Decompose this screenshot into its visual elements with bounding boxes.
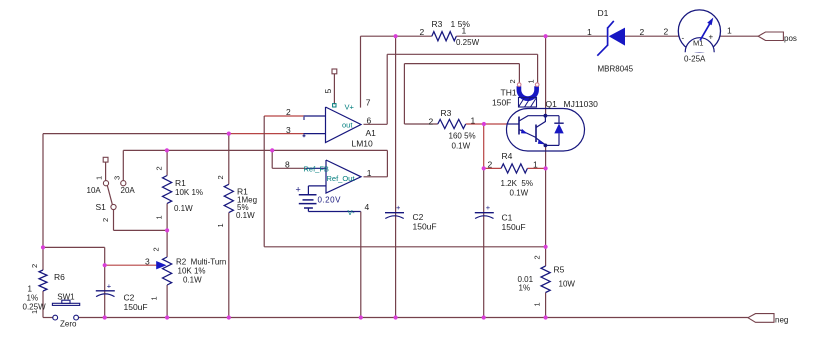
svg-text:3: 3 bbox=[286, 125, 291, 135]
svg-text:1: 1 bbox=[587, 27, 592, 37]
svg-text:1: 1 bbox=[30, 310, 39, 314]
svg-text:2: 2 bbox=[640, 27, 645, 37]
svg-text:R1: R1 bbox=[175, 178, 186, 188]
svg-text:1: 1 bbox=[533, 302, 542, 306]
svg-text:-: - bbox=[682, 34, 685, 43]
svg-text:R3: R3 bbox=[432, 19, 443, 29]
svg-text:10K 1%: 10K 1% bbox=[175, 188, 203, 197]
svg-text:LM10: LM10 bbox=[352, 139, 374, 149]
svg-text:0.25W: 0.25W bbox=[456, 38, 480, 47]
svg-text:1: 1 bbox=[216, 223, 225, 227]
svg-text:S1: S1 bbox=[96, 202, 107, 212]
svg-text:2: 2 bbox=[488, 160, 493, 170]
svg-text:Q1: Q1 bbox=[546, 99, 558, 109]
svg-text:+: + bbox=[296, 185, 301, 195]
svg-text:Ref_FB: Ref_FB bbox=[304, 165, 329, 174]
svg-text:C1: C1 bbox=[502, 213, 513, 223]
svg-text:6: 6 bbox=[367, 116, 372, 126]
svg-text:R5: R5 bbox=[554, 265, 565, 275]
svg-text:1%: 1% bbox=[519, 284, 531, 293]
svg-text:MJ11030: MJ11030 bbox=[564, 99, 599, 109]
svg-text:1: 1 bbox=[155, 215, 164, 219]
svg-text:2: 2 bbox=[286, 107, 291, 117]
svg-text:2: 2 bbox=[664, 27, 669, 37]
svg-text:Ref_Out: Ref_Out bbox=[327, 174, 356, 183]
svg-text:1: 1 bbox=[95, 176, 104, 180]
svg-text:out: out bbox=[342, 121, 353, 130]
svg-text:1: 1 bbox=[150, 296, 159, 300]
svg-text:R6: R6 bbox=[54, 272, 65, 282]
svg-text:1: 1 bbox=[533, 160, 538, 170]
svg-text:R2 Multi-Turn: R2 Multi-Turn bbox=[176, 258, 226, 267]
svg-text:1: 1 bbox=[367, 168, 372, 178]
svg-text:20A: 20A bbox=[121, 186, 136, 195]
svg-text:pos: pos bbox=[784, 34, 797, 43]
svg-text:0.1W: 0.1W bbox=[236, 211, 255, 220]
svg-text:1: 1 bbox=[462, 26, 467, 36]
svg-text:R4: R4 bbox=[502, 151, 513, 161]
svg-text:150F: 150F bbox=[492, 98, 511, 108]
svg-text:C2: C2 bbox=[413, 212, 424, 222]
svg-text:V-: V- bbox=[348, 208, 356, 217]
svg-text:150uF: 150uF bbox=[413, 222, 437, 232]
svg-text:1: 1 bbox=[527, 79, 536, 83]
svg-text:0.20V: 0.20V bbox=[318, 195, 342, 204]
svg-text:0-25A: 0-25A bbox=[684, 55, 706, 64]
svg-text:SW1: SW1 bbox=[57, 292, 75, 301]
svg-text:2: 2 bbox=[420, 27, 425, 37]
svg-text:+: + bbox=[107, 281, 112, 290]
svg-text:D1: D1 bbox=[598, 8, 609, 18]
svg-text:1: 1 bbox=[727, 26, 732, 36]
svg-text:3: 3 bbox=[113, 176, 122, 180]
svg-text:150uF: 150uF bbox=[124, 302, 148, 312]
svg-text:150uF: 150uF bbox=[502, 222, 526, 232]
svg-text:5: 5 bbox=[323, 89, 333, 94]
svg-text:M1: M1 bbox=[693, 39, 703, 48]
svg-text:2: 2 bbox=[429, 117, 434, 127]
svg-text:R3: R3 bbox=[441, 108, 452, 118]
svg-text:2: 2 bbox=[152, 247, 161, 251]
svg-text:0.1W: 0.1W bbox=[510, 189, 529, 198]
svg-text:0.1W: 0.1W bbox=[183, 276, 202, 285]
svg-text:2: 2 bbox=[30, 264, 39, 268]
svg-text:2: 2 bbox=[216, 175, 225, 179]
svg-text:7: 7 bbox=[366, 98, 371, 108]
svg-text:+: + bbox=[709, 33, 714, 42]
svg-text:2: 2 bbox=[101, 218, 110, 222]
svg-text:160 5%: 160 5% bbox=[449, 132, 476, 141]
svg-text:2: 2 bbox=[533, 255, 542, 259]
svg-text:10A: 10A bbox=[87, 186, 102, 195]
svg-text:10W: 10W bbox=[559, 280, 576, 289]
svg-text:+: + bbox=[396, 203, 401, 212]
svg-text:Zero: Zero bbox=[60, 320, 77, 329]
svg-text:8: 8 bbox=[285, 159, 290, 169]
svg-text:1%: 1% bbox=[27, 294, 39, 303]
svg-text:C2: C2 bbox=[124, 293, 135, 303]
svg-text:+: + bbox=[486, 203, 491, 212]
svg-text:10K 1%: 10K 1% bbox=[178, 267, 206, 276]
svg-text:V+: V+ bbox=[345, 103, 355, 112]
svg-text:1: 1 bbox=[28, 285, 33, 294]
svg-text:A1: A1 bbox=[366, 128, 377, 138]
svg-text:TH1: TH1 bbox=[501, 88, 517, 98]
svg-text:1.2K 5%: 1.2K 5% bbox=[501, 179, 533, 188]
svg-text:MBR8045: MBR8045 bbox=[598, 65, 634, 74]
svg-text:2: 2 bbox=[155, 166, 164, 170]
svg-text:3: 3 bbox=[145, 257, 150, 267]
svg-text:4: 4 bbox=[365, 202, 370, 212]
svg-text:0.1W: 0.1W bbox=[452, 142, 471, 151]
svg-text:2: 2 bbox=[508, 79, 517, 83]
svg-text:1: 1 bbox=[471, 116, 476, 126]
svg-text:0.1W: 0.1W bbox=[174, 204, 193, 213]
svg-text:1 5%: 1 5% bbox=[451, 19, 471, 29]
svg-text:neg: neg bbox=[775, 316, 788, 325]
